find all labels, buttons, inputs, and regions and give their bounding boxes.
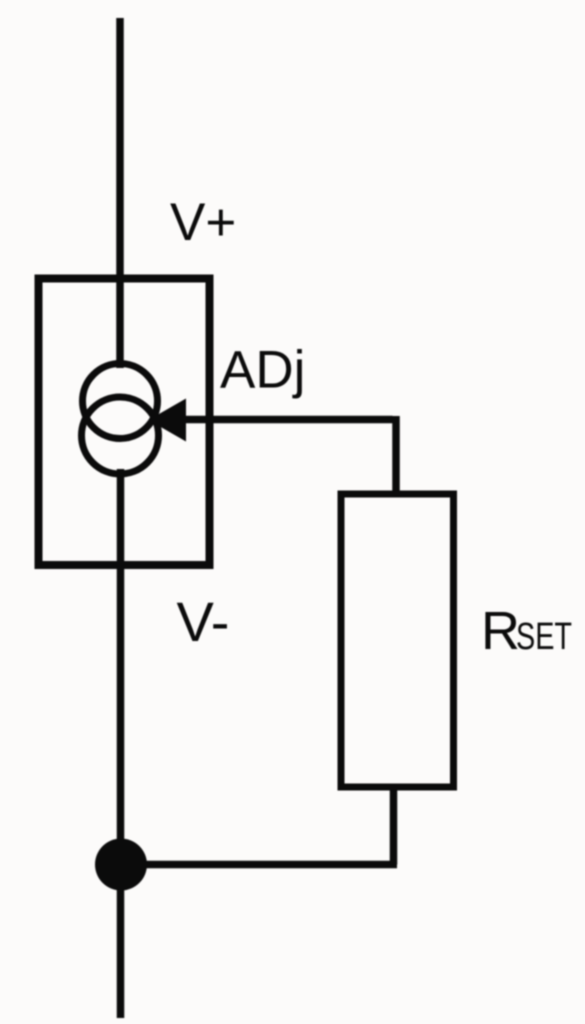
current source CS1 circle upper [83,364,158,439]
wire ADJ corner down to RSET [392,416,400,495]
wire V- rail (bottom vertical) [117,469,125,1018]
current source CS1 circle lower [82,397,159,474]
wire bottom horizontal to node [120,861,397,869]
svg-text:V+: V+ [170,193,236,252]
resistor RSET body [341,494,454,787]
regulator box U1 [39,279,210,566]
wire V+ rail (top vertical) [116,18,124,368]
svg-text:ADj: ADj [220,341,305,400]
svg-text:V-: V- [177,590,230,653]
node junction dot [95,839,147,891]
wire RSET bottom lead [390,787,398,865]
arrowhead into ADJ pin [149,399,187,442]
wire ADJ horizontal [170,416,393,424]
svg-text:RSET: RSET [481,601,572,661]
